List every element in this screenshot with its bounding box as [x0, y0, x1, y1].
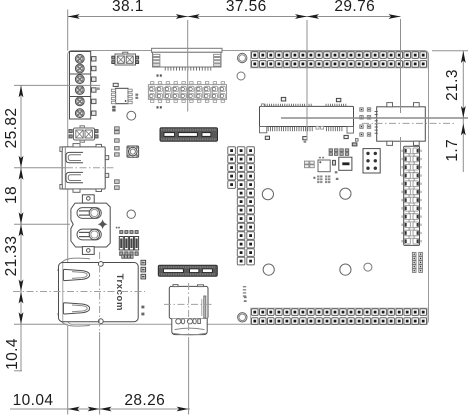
svg-text:21.33: 21.33 — [3, 236, 20, 277]
svg-text:10.4: 10.4 — [4, 338, 21, 370]
svg-text:21.3: 21.3 — [444, 69, 461, 101]
svg-text:18: 18 — [3, 186, 20, 204]
svg-text:37.56: 37.56 — [226, 0, 267, 15]
svg-text:Trxcom: Trxcom — [114, 274, 125, 311]
svg-text:10.04: 10.04 — [13, 392, 54, 409]
svg-text:25.82: 25.82 — [3, 108, 20, 149]
svg-text:28.26: 28.26 — [124, 392, 165, 409]
svg-text:1.7: 1.7 — [444, 139, 461, 162]
svg-text:38.1: 38.1 — [112, 0, 144, 15]
svg-text:29.76: 29.76 — [334, 0, 375, 15]
